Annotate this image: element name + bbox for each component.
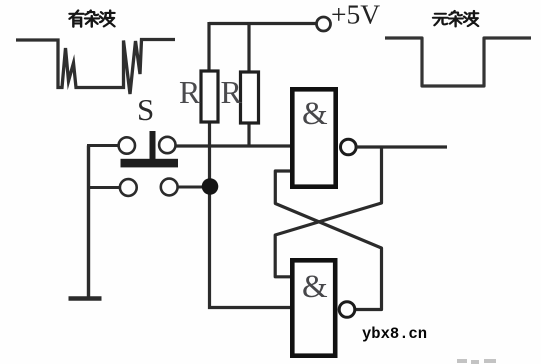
svg-text:R: R xyxy=(221,74,243,110)
wire R1 bottom lead / node A vertical to gate U1b input xyxy=(210,122,291,308)
wire R2 bottom lead xyxy=(247,123,250,148)
U1b output bubble xyxy=(339,302,355,318)
switch contact bottom-left xyxy=(120,179,137,196)
wire feedback Qbar: U1b output up-cross to U1a lower input xyxy=(275,171,381,310)
nand gate U1a xyxy=(292,89,335,186)
resistor R2 xyxy=(241,72,259,123)
switch contact top-left xyxy=(119,137,135,153)
wire switch left bottom xyxy=(87,186,120,189)
resistor R1 xyxy=(201,71,218,122)
U1a output bubble xyxy=(341,139,357,155)
wire ground vertical xyxy=(87,146,90,299)
switch S actuator stem xyxy=(150,131,156,160)
junction node A dot xyxy=(202,178,219,195)
svg-text:&: & xyxy=(302,96,328,132)
switch contact top-right xyxy=(159,137,175,153)
svg-text:S: S xyxy=(137,92,154,127)
waveform noisy input xyxy=(16,40,175,95)
nand gate U1b xyxy=(292,260,335,355)
wire switch left top xyxy=(87,144,119,147)
wire node A horizontal: switch to gate U1a input xyxy=(176,144,290,147)
wire switch right bottom to junction xyxy=(178,186,206,189)
svg-text:+5V: +5V xyxy=(331,0,380,30)
svg-text:&: & xyxy=(302,269,328,305)
ground xyxy=(69,296,102,301)
label 无杂波 (clean) xyxy=(433,11,478,27)
wire R1 top lead xyxy=(207,22,210,71)
wire +5V rail xyxy=(209,22,317,25)
svg-text:R: R xyxy=(179,74,201,110)
waveform clean output xyxy=(385,38,531,86)
wire R2 top lead xyxy=(247,22,250,72)
bottom edge artifact xyxy=(457,359,496,364)
wire U1a output xyxy=(356,145,447,148)
label 有杂波 (noisy) xyxy=(69,10,114,26)
wire feedback Q: U1a output down-cross to U1b upper input xyxy=(275,147,381,277)
switch S bar xyxy=(121,159,179,168)
switch contact bottom-right xyxy=(161,179,178,196)
svg-text:ybx8.cn: ybx8.cn xyxy=(362,325,427,343)
power terminal circle xyxy=(317,17,331,31)
